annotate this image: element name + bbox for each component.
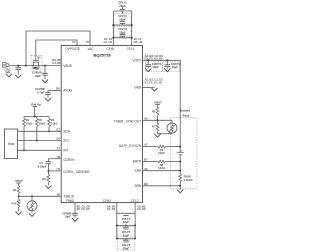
- svg-text:H6: H6: [57, 155, 61, 159]
- wire: bottom bus 2: [117, 237, 135, 239]
- wire: CFL1 rail: [131, 11, 133, 46]
- wire: AVDD: [48, 89, 61, 91]
- svg-text:R3: R3: [51, 118, 55, 122]
- svg-text:F7: F7: [57, 146, 61, 150]
- svg-text:10kΩ: 10kΩ: [26, 121, 33, 125]
- svg-text:B6: B6: [144, 182, 148, 186]
- resistor R7: [152, 120, 159, 133]
- svg-text:100Ω: 100Ω: [158, 151, 165, 155]
- wire: BATP_SYNCIN: [143, 146, 158, 148]
- svg-text:10µF: 10µF: [152, 65, 159, 69]
- svg-text:22µF: 22µF: [119, 30, 126, 34]
- Battery Pack dashed box: [171, 118, 197, 189]
- resistor R3: [48, 117, 59, 132]
- svg-text:A5: A5: [144, 116, 148, 120]
- wire: TSBAT_SYNCOUT: [143, 119, 173, 121]
- svg-text:R10: R10: [11, 202, 16, 206]
- svg-text:CFH1: CFH1: [107, 47, 116, 51]
- capacitor CFLY6 in dashed box: [117, 238, 134, 250]
- svg-text:A6: A6: [144, 167, 148, 171]
- node: COUT2 tap: [166, 59, 168, 61]
- capacitor CVBUS: [42, 66, 48, 80]
- svg-text:BATP_SYNCIN: BATP_SYNCIN: [119, 144, 142, 148]
- svg-text:B7: B7: [144, 158, 148, 162]
- resistor R10: [11, 196, 20, 211]
- wire: GND pin: [143, 87, 155, 89]
- pull-up rail: [31, 102, 41, 116]
- svg-text:Pull Up: Pull Up: [31, 102, 41, 106]
- svg-text:10kΩ: 10kΩ: [51, 121, 58, 125]
- node: NTC tap on TSBUS: [31, 195, 33, 197]
- svg-text:R6: R6: [152, 109, 156, 113]
- wire: CFL2 rail: [134, 203, 136, 239]
- net flag VOUT (TSBUS divider): [15, 179, 23, 185]
- svg-text:22µF: 22µF: [119, 18, 126, 22]
- ground for COUT2: [164, 68, 170, 71]
- node: bbus2 right: [134, 237, 136, 239]
- capacitor CFLY5 in dashed box: [117, 225, 134, 237]
- svg-text:R1: R1: [26, 118, 30, 122]
- capacitor COUT1 in dashed box: [145, 60, 162, 71]
- svg-text:VBUS: VBUS: [63, 64, 72, 68]
- wire: pull-up bus: [24, 116, 49, 118]
- svg-text:INT: INT: [63, 148, 68, 152]
- capacitor CPMID: [62, 211, 77, 218]
- node: CDRV cap on CDRVL: [47, 170, 49, 172]
- svg-text:C7: C7: [72, 40, 76, 44]
- svg-text:OVPGATE: OVPGATE: [65, 47, 80, 51]
- svg-text:TSBAT_SYNCOUT: TSBAT_SYNCOUT: [114, 120, 141, 124]
- wire: rail SRN to ground: [179, 186, 181, 190]
- svg-text:R7: R7: [152, 124, 156, 128]
- svg-text:SCL: SCL: [63, 139, 69, 143]
- ground for COUT1: [145, 68, 151, 71]
- svg-text:CFL1: CFL1: [127, 47, 135, 51]
- wire: BATN: [143, 161, 158, 163]
- svg-text:E5, F5, G5: E5, F5, G5: [77, 207, 91, 211]
- svg-text:G4, H4: G4, H4: [103, 40, 112, 44]
- svg-text:E1, F1, G1, H1: E1, F1, G1, H1: [145, 81, 163, 85]
- svg-text:SDA: SDA: [63, 130, 70, 134]
- svg-text:100Ω: 100Ω: [158, 166, 165, 170]
- resistor R8: [157, 160, 180, 170]
- svg-text:Pack: Pack: [183, 114, 190, 118]
- svg-text:10kΩ: 10kΩ: [39, 121, 46, 125]
- resistor R4: [157, 145, 180, 155]
- node: COUT1 tap: [147, 59, 149, 61]
- svg-text:10µF: 10µF: [64, 215, 71, 219]
- ground for CPMID: [72, 218, 78, 221]
- svg-text:D6: D6: [56, 87, 60, 91]
- svg-text:0.22µF: 0.22µF: [38, 164, 47, 168]
- svg-text:SRP: SRP: [135, 169, 142, 173]
- node: CVBUS tap: [44, 65, 46, 67]
- node: pull-up stem: [34, 116, 36, 118]
- ground for GND pin: [151, 88, 157, 91]
- svg-text:10µF: 10µF: [34, 74, 41, 78]
- resistor R5: [42, 171, 50, 186]
- svg-text:22µF: 22µF: [119, 4, 126, 8]
- wire: TSBUS: [19, 195, 62, 197]
- svg-text:R5: R5: [42, 177, 46, 181]
- ground for R5: [45, 185, 51, 188]
- ground for CAVDD: [45, 98, 51, 101]
- AC adapter J1 icon: [3, 63, 9, 68]
- capacitor CFLY3 in dashed box: [114, 26, 131, 38]
- wire: TSBAT ground bar: [158, 133, 173, 135]
- transistor Q1: [31, 55, 42, 70]
- node: SRN on rail: [179, 185, 181, 187]
- node: bus2 left: [112, 37, 114, 39]
- resistor RSNS: [179, 171, 194, 186]
- svg-text:E7: E7: [86, 40, 90, 44]
- svg-text:0.002Ω: 0.002Ω: [184, 178, 194, 182]
- resistor R1: [23, 117, 34, 151]
- svg-text:E4, E8: E4, E8: [52, 61, 61, 65]
- ground for R10: [16, 212, 22, 215]
- wire: SRN: [143, 185, 181, 187]
- node: BATP on rail: [179, 146, 181, 148]
- svg-text:G7: G7: [56, 127, 60, 131]
- capacitor CAC: [15, 66, 21, 75]
- wire: mid bus 1: [113, 24, 131, 26]
- node: bus1 left: [112, 24, 114, 26]
- wire: SDA: [18, 130, 62, 132]
- resistor R9: [13, 185, 20, 197]
- capacitor COUT2 in dashed box: [163, 60, 181, 71]
- node: TSBUS divider: [18, 195, 20, 197]
- wire: bottom bus 0: [117, 212, 135, 214]
- svg-text:R2: R2: [39, 118, 43, 122]
- wire: INT: [18, 149, 62, 151]
- svg-text:1µF: 1µF: [5, 70, 10, 74]
- ground for battery pack: [177, 190, 183, 193]
- svg-text:RSNS: RSNS: [184, 174, 192, 178]
- wire: top bus: [113, 10, 131, 12]
- svg-text:Battery: Battery: [180, 109, 190, 113]
- svg-text:Host: Host: [8, 142, 15, 146]
- svg-text:VOUT: VOUT: [15, 179, 23, 183]
- node: BATN on rail: [179, 161, 181, 163]
- svg-text:CDRVH: CDRVH: [63, 158, 75, 162]
- wire: riser to VAC pin: [26, 31, 90, 66]
- svg-text:C4, D4: C4, D4: [107, 207, 116, 211]
- wire: CDRVH: [48, 158, 61, 160]
- battery BT1: [177, 147, 184, 162]
- node: bbus1 left: [116, 224, 118, 226]
- svg-text:R9: R9: [13, 188, 17, 192]
- svg-text:CFH2: CFH2: [103, 199, 112, 203]
- resistor R2: [35, 117, 46, 141]
- node: bbus1 right: [134, 224, 136, 226]
- node: R1 on INT: [23, 149, 25, 151]
- capacitor CFLY4: [122, 215, 131, 225]
- svg-text:H7: H7: [57, 167, 61, 171]
- thermistor RT2: [167, 120, 177, 133]
- svg-text:G6: G6: [56, 137, 60, 141]
- node: VAC riser tap: [25, 65, 27, 67]
- node: bbus2 left: [116, 237, 118, 239]
- ground for CAC: [15, 75, 21, 78]
- node: SRP on rail: [179, 170, 181, 172]
- svg-text:G2, H2: G2, H2: [134, 40, 143, 44]
- svg-text:22µF: 22µF: [123, 233, 130, 237]
- wire: CFH2 rail: [116, 203, 118, 239]
- wire: rail BATN to SRP: [179, 162, 181, 171]
- node: R3 on SDA: [48, 130, 50, 132]
- node: bus1 right: [131, 24, 133, 26]
- wire: mid bus 2: [113, 37, 131, 39]
- svg-text:22µF: 22µF: [123, 246, 130, 250]
- svg-text:H5: H5: [57, 193, 61, 197]
- svg-text:CFL2: CFL2: [131, 199, 139, 203]
- Host box: [4, 129, 17, 158]
- svg-text:Q1: Q1: [37, 55, 41, 59]
- wire: CFH1 rail: [112, 11, 114, 46]
- resistor R6: [152, 106, 159, 120]
- svg-text:CDRVL_ADDRMS: CDRVL_ADDRMS: [63, 170, 89, 174]
- node: bus2 right: [131, 37, 133, 39]
- svg-text:TSBUS: TSBUS: [63, 194, 74, 198]
- ground under adapter: [6, 74, 12, 77]
- svg-text:PMID: PMID: [66, 199, 75, 203]
- svg-text:4.7µF: 4.7µF: [37, 91, 44, 95]
- capacitor CAVDD: [45, 90, 51, 98]
- IC U1 body: [61, 46, 142, 203]
- svg-text:VOUT: VOUT: [154, 101, 162, 105]
- wire: SRP: [143, 170, 181, 172]
- svg-text:SRN: SRN: [134, 184, 141, 188]
- capacitor CDRV: [38, 159, 51, 171]
- ground for RT1: [29, 213, 35, 216]
- svg-text:BATN: BATN: [133, 159, 142, 163]
- wire: bottom bus 1: [117, 224, 135, 226]
- wire: CDRVL: [48, 170, 61, 172]
- wire: SCL: [18, 140, 62, 142]
- ground for TSBAT divider: [154, 134, 160, 137]
- svg-text:VAC: VAC: [88, 47, 95, 51]
- node: TSBAT divider: [157, 119, 159, 121]
- svg-text:10µF: 10µF: [171, 65, 178, 69]
- net flag VOUT (TSBAT divider): [154, 101, 162, 107]
- thermistor RT1: [27, 196, 37, 213]
- svg-text:VOUT: VOUT: [132, 59, 141, 63]
- svg-text:AVDD: AVDD: [63, 89, 72, 93]
- ground for CVBUS: [42, 80, 48, 83]
- capacitor CFLY1: [118, 0, 127, 13]
- node: CAC tap: [17, 65, 19, 67]
- wire: Q1 gate to OVPGATE pin: [36, 40, 77, 60]
- wire: AC input to VBUS (y=65.6): [9, 65, 61, 67]
- svg-text:C2, D2: C2, D2: [137, 207, 146, 211]
- node: R2 on SCL: [36, 140, 38, 142]
- svg-text:BQ25718: BQ25718: [93, 53, 111, 58]
- svg-text:A7: A7: [144, 143, 148, 147]
- wire: VOUT: [143, 60, 181, 147]
- svg-text:22µF: 22µF: [123, 220, 130, 224]
- svg-text:GND: GND: [134, 86, 142, 90]
- capacitor CFLY2 in dashed box: [114, 14, 131, 25]
- wire: PMID stub: [74, 203, 76, 214]
